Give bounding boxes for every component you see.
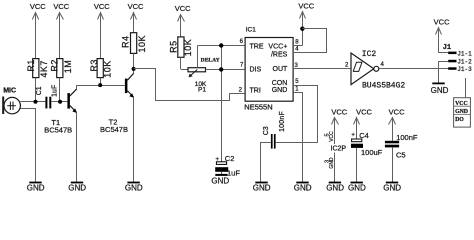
wire T2 collector to 555 TRI	[134, 69, 246, 101]
svg-text:R2: R2	[50, 59, 60, 72]
svg-text:GND: GND	[431, 86, 449, 95]
wire TRE feedback	[198, 45, 246, 47]
capacitor C3 100nF	[261, 111, 318, 182]
node R3 junction	[98, 83, 102, 87]
ground C4	[348, 183, 366, 193]
svg-text:IC1: IC1	[246, 27, 257, 34]
capacitor C1 1uF	[36, 85, 59, 109]
svg-text:GND: GND	[294, 183, 312, 192]
svg-text:GND: GND	[27, 183, 45, 192]
svg-text:GND: GND	[348, 183, 366, 192]
svg-text:BC547B: BC547B	[100, 125, 128, 134]
svg-text:C3: C3	[263, 126, 270, 135]
wire timing node vertical	[221, 46, 223, 162]
svg-text:VCC: VCC	[128, 2, 144, 11]
svg-text:R3: R3	[89, 59, 99, 72]
wire IC2 out to J1-3	[379, 68, 449, 70]
svg-text:100nF: 100nF	[279, 111, 286, 132]
transistor T1 BC547B	[44, 85, 77, 135]
callout leader line	[465, 78, 467, 98]
svg-text:C5: C5	[396, 150, 406, 159]
wire MIC out bottom to GND	[21, 109, 36, 183]
node R1/MIC junction	[34, 100, 38, 104]
capacitor C2 1uF electrolytic	[215, 154, 240, 177]
capacitor C4 100uF electrolytic	[351, 131, 383, 183]
svg-text:+: +	[215, 157, 219, 163]
resistor R2 1M	[50, 59, 74, 102]
svg-text:MIC: MIC	[3, 87, 16, 94]
VCC supply arrow J1	[434, 17, 450, 52]
svg-text:VCC+: VCC+	[268, 44, 287, 51]
svg-text:VCC: VCC	[53, 2, 69, 11]
svg-text:R4: R4	[121, 36, 131, 49]
svg-text:VCC: VCC	[175, 4, 191, 13]
VCC supply arrow 1	[30, 2, 46, 58]
svg-text:VCC: VCC	[356, 107, 372, 116]
svg-text:R1: R1	[26, 59, 36, 72]
wire T2 emitter to GND	[133, 97, 135, 182]
resistor R3 10K	[89, 59, 113, 86]
svg-text:10K: 10K	[103, 60, 113, 78]
node DIS junction	[219, 67, 223, 71]
svg-text:IC2: IC2	[362, 50, 377, 59]
power part IC2P	[324, 131, 346, 183]
svg-text:VCC: VCC	[30, 2, 46, 11]
VCC supply arrow 5	[175, 4, 191, 37]
svg-text:C2: C2	[225, 154, 235, 163]
svg-text:+: +	[351, 133, 355, 139]
svg-text:P1: P1	[198, 86, 206, 93]
ground 555	[294, 183, 312, 193]
ground MIC	[27, 183, 45, 193]
svg-text:VCC: VCC	[298, 2, 314, 11]
svg-text:VCC: VCC	[331, 107, 347, 116]
wire P1 to 555 DIS	[206, 69, 246, 71]
svg-text:C4: C4	[359, 131, 369, 140]
capacitor C5 100nF	[385, 133, 418, 183]
svg-text:TRE: TRE	[250, 44, 264, 51]
VCC supply arrow 6 (555 pin8)	[298, 2, 314, 46]
wire reset loop pin4	[293, 29, 327, 53]
ground J1	[431, 83, 449, 95]
resistor R4 10K	[121, 33, 147, 69]
net label table	[454, 98, 471, 127]
wire CON pin5 to C3	[293, 86, 318, 143]
transistor T2 BC547B	[100, 69, 134, 135]
svg-text:DO: DO	[455, 117, 464, 123]
inverter IC2 BU4S5B4G2	[345, 50, 405, 90]
VCC supply arrow C5	[389, 107, 406, 141]
svg-text:BC547B: BC547B	[44, 126, 72, 135]
svg-text:OUT: OUT	[273, 66, 289, 73]
wire GND pin1	[293, 93, 303, 183]
node VCC/reset junction	[300, 27, 304, 31]
svg-text:GND: GND	[125, 183, 143, 192]
svg-text:DELAY: DELAY	[201, 58, 220, 64]
svg-text:4K7: 4K7	[39, 60, 49, 78]
svg-text:GND: GND	[211, 176, 229, 185]
svg-text:GND: GND	[455, 109, 468, 115]
ground T2	[125, 183, 143, 193]
svg-text:CON: CON	[272, 80, 288, 87]
wire MIC out top	[20, 101, 45, 103]
svg-text:TRI: TRI	[250, 87, 261, 94]
VCC supply arrow IC2P	[331, 107, 347, 144]
VCC supply arrow 3	[94, 2, 110, 58]
svg-text:J1-3: J1-3	[457, 66, 472, 73]
svg-text:100uF: 100uF	[361, 148, 383, 157]
svg-text:1M: 1M	[63, 60, 73, 74]
wire T1 emitter to GND	[76, 113, 78, 183]
svg-text:VCC: VCC	[434, 17, 450, 26]
svg-text:GND: GND	[272, 87, 288, 94]
ground T1	[68, 183, 86, 193]
svg-text:/RES: /RES	[271, 52, 288, 59]
svg-text:J1-1: J1-1	[457, 50, 472, 57]
node R2 junction	[58, 100, 62, 104]
svg-text:VCC: VCC	[94, 2, 110, 11]
VCC supply arrow 4	[128, 2, 144, 33]
svg-text:GND: GND	[68, 183, 86, 192]
ground IC2P	[326, 183, 344, 193]
wire 555 pin8 VCC	[293, 45, 303, 47]
wire OUT pin3 to IC2	[293, 68, 351, 70]
resistor R1 4K7	[26, 59, 49, 102]
VCC supply arrow 2	[53, 2, 69, 58]
wire J1-2 to GND	[439, 62, 449, 83]
svg-text:GND: GND	[383, 183, 401, 192]
svg-text:BU4S5B4G2: BU4S5B4G2	[362, 82, 405, 91]
trimmer P1 10K	[188, 68, 207, 94]
ground C3	[253, 183, 271, 193]
svg-text:J1: J1	[443, 44, 451, 52]
op-amp U1 555 box	[244, 27, 293, 112]
svg-text:NE555N: NE555N	[244, 103, 272, 112]
node T2 collector junction	[132, 67, 136, 71]
svg-text:VCC: VCC	[455, 101, 468, 107]
svg-text:C1: C1	[36, 86, 43, 95]
ground C2	[211, 175, 229, 186]
svg-text:R5: R5	[168, 40, 178, 53]
svg-text:10K: 10K	[183, 39, 193, 57]
wire P1 wiper	[197, 46, 199, 68]
resistor R5 10K	[168, 37, 193, 70]
svg-text:IC2P: IC2P	[331, 146, 347, 153]
svg-text:J1-2: J1-2	[457, 59, 472, 66]
node TRE junction	[219, 43, 223, 47]
svg-text:VCC: VCC	[329, 131, 335, 142]
svg-text:DIS: DIS	[250, 66, 262, 73]
svg-text:VCC: VCC	[389, 107, 405, 116]
ground C5	[383, 183, 401, 193]
wire C1 to T1 base	[51, 101, 67, 103]
svg-text:100nF: 100nF	[396, 133, 418, 142]
connector J1	[443, 44, 472, 73]
microphone MIC	[2, 87, 20, 114]
svg-text:GND: GND	[326, 183, 344, 192]
svg-text:10K: 10K	[137, 35, 147, 53]
VCC supply arrow C4	[354, 107, 373, 139]
svg-text:1uF: 1uF	[52, 85, 59, 97]
svg-text:GND: GND	[253, 183, 271, 192]
wire T1 collector to T2 base	[77, 85, 125, 87]
